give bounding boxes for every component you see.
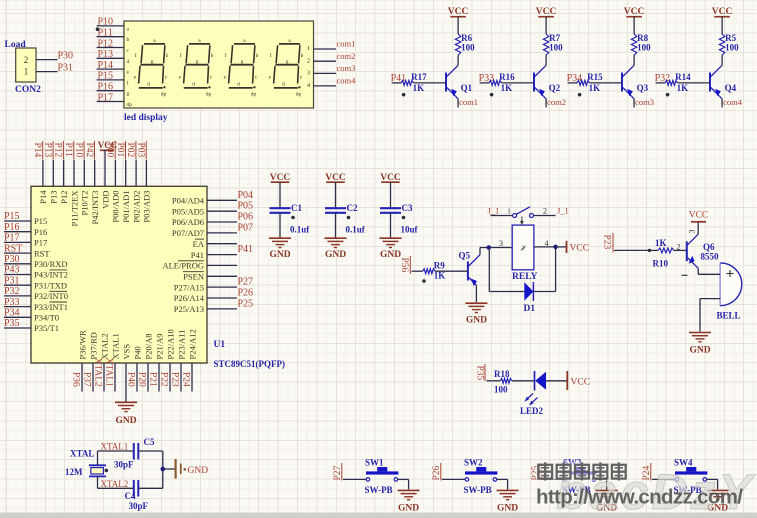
svg-text:GND: GND — [115, 416, 136, 426]
net label P24 — [181, 372, 191, 387]
svg-text:VCC: VCC — [624, 7, 645, 17]
bell LS1 — [717, 263, 742, 321]
wire mcu top pin P10/T2 — [83, 160, 85, 187]
wire P26 to SW2 — [442, 478, 465, 480]
wire mcu bottom pin XTAL2 — [103, 363, 105, 392]
svg-text:XTAL1: XTAL1 — [101, 442, 129, 452]
svg-text:0.1uf: 0.1uf — [290, 225, 310, 235]
junction marker near P32 — [666, 93, 670, 97]
wire VCC to R5 — [721, 17, 723, 34]
svg-text:P10/T2: P10/T2 — [80, 191, 90, 216]
wire Q5 collector to relay pin 3 — [480, 248, 512, 255]
svg-text:http://www.cndzz.com/: http://www.cndzz.com/ — [536, 486, 743, 509]
svg-text:P32: P32 — [4, 286, 20, 297]
led display digit 4 — [269, 38, 304, 98]
wire R5 to Q4 collector — [721, 55, 723, 65]
wire P27 to SW1 — [343, 478, 366, 480]
led display digit 1 — [134, 38, 169, 98]
wire R18 to LED2 — [512, 380, 535, 382]
svg-text:com1: com1 — [459, 97, 478, 107]
svg-text:Q1: Q1 — [461, 83, 473, 93]
wire mcu right pin P27/A15 — [207, 286, 237, 288]
resistor R5 100 — [719, 33, 739, 55]
svg-text:100: 100 — [725, 43, 739, 53]
net label P14 — [32, 141, 43, 159]
svg-text:P36: P36 — [71, 372, 81, 387]
wire mcu left pin P15 — [4, 220, 31, 222]
junction marker near P34 — [578, 93, 582, 97]
svg-text:P10: P10 — [98, 17, 114, 28]
svg-text:XTAL2: XTAL2 — [99, 333, 109, 359]
svg-text:GND: GND — [466, 316, 487, 326]
wire LED2 to VCC — [546, 380, 567, 382]
svg-text:P23/A11: P23/A11 — [176, 330, 186, 360]
svg-text:P24/A12: P24/A12 — [187, 329, 197, 359]
wire SW2 to ground — [497, 479, 508, 489]
net label P21 — [148, 372, 158, 387]
svg-text:g: g — [127, 91, 130, 97]
ground below C3 — [380, 237, 402, 239]
resistor R8 100 — [631, 33, 651, 55]
wire P14 to led display — [97, 68, 124, 70]
svg-text:3: 3 — [499, 239, 503, 248]
svg-text:P43/INT2: P43/INT2 — [34, 270, 68, 280]
wire bell to ground — [700, 299, 720, 332]
svg-text:P40: P40 — [132, 346, 142, 359]
svg-text:P35: P35 — [4, 318, 20, 329]
svg-text:d: d — [127, 59, 130, 65]
wire mcu bottom pin P40 — [136, 363, 138, 392]
wire P25 to SW3 — [541, 478, 564, 480]
wire mcu top pin P02/AD2 — [135, 160, 137, 187]
svg-text:P24: P24 — [181, 372, 191, 387]
svg-text:P17: P17 — [34, 238, 47, 248]
wire P15 to led display — [97, 79, 124, 81]
svg-text:R5: R5 — [725, 33, 736, 43]
wire mcu left pin RST — [4, 252, 31, 254]
net label P12 — [53, 141, 64, 159]
resistor R9 1K — [423, 261, 446, 281]
svg-text:P40: P40 — [126, 372, 136, 387]
svg-text:P11: P11 — [98, 28, 113, 39]
svg-text:P15: P15 — [98, 71, 114, 82]
svg-text:P43: P43 — [4, 265, 20, 276]
svg-text:g: g — [286, 59, 289, 65]
transistor Q3 — [621, 65, 649, 99]
resistor R6 100 — [455, 33, 475, 55]
svg-text:1: 1 — [24, 67, 29, 77]
svg-text:Q6: Q6 — [703, 242, 715, 252]
svg-text:dp: dp — [206, 92, 212, 98]
wire mcu top pin VDD — [104, 160, 106, 187]
svg-text:P13: P13 — [42, 143, 52, 158]
net label P35 — [475, 364, 485, 381]
wire P41 to R17 — [392, 82, 401, 84]
wire mcu left pin P30/RXD — [4, 263, 31, 265]
svg-text:P00/AD0: P00/AD0 — [111, 191, 121, 223]
svg-text:P42: P42 — [84, 143, 94, 158]
bell minus terminal — [682, 274, 688, 276]
svg-text:P16: P16 — [4, 222, 20, 233]
svg-text:f: f — [135, 52, 137, 59]
svg-text:P36/WR: P36/WR — [77, 330, 87, 360]
transistor Q2 — [533, 65, 561, 99]
svg-text:P17: P17 — [98, 92, 114, 103]
svg-text:com1: com1 — [337, 39, 356, 49]
svg-text:d: d — [237, 82, 240, 88]
svg-text:P10: P10 — [73, 143, 83, 158]
svg-text:f: f — [127, 79, 129, 86]
wire P32 to R14 — [656, 82, 665, 84]
svg-text:XTAL1: XTAL1 — [110, 333, 120, 359]
wire mcu top pin P14 — [42, 160, 44, 187]
svg-text:P05/AD5: P05/AD5 — [172, 206, 204, 216]
svg-text:com4: com4 — [723, 97, 743, 107]
wire Q6 emitter to bell — [698, 268, 720, 274]
svg-text:LED2: LED2 — [520, 406, 544, 416]
power port VCC above C3 — [380, 173, 401, 183]
svg-text:P21/A9: P21/A9 — [154, 334, 164, 360]
svg-text:P14: P14 — [38, 190, 48, 204]
svg-text:STC89C51(PQFP): STC89C51(PQFP) — [214, 359, 286, 369]
resistor R14 1K — [665, 72, 691, 93]
power port VCC above C2 — [325, 173, 346, 183]
wire mcu left pin P33/INT1 — [4, 306, 31, 308]
svg-text:P15: P15 — [4, 211, 20, 222]
junction relay pin4 node — [553, 245, 558, 250]
svg-text:P13: P13 — [49, 191, 59, 204]
svg-text:f: f — [270, 52, 272, 59]
svg-text:P22/A10: P22/A10 — [165, 329, 175, 359]
svg-text:P41: P41 — [238, 244, 254, 255]
wire mcu right pin EA — [207, 243, 237, 245]
svg-text:SW1: SW1 — [365, 458, 384, 468]
relay contact switch J_1 — [491, 207, 556, 225]
svg-text:com3: com3 — [635, 97, 654, 107]
wire VCC to C2 — [335, 182, 337, 207]
capacitor C5 30pF — [114, 437, 155, 470]
svg-text:XTAL1: XTAL1 — [104, 358, 114, 388]
wire mcu right pin P04/AD4 — [207, 199, 237, 201]
svg-text:2: 2 — [543, 207, 547, 216]
svg-text:2: 2 — [24, 55, 29, 65]
svg-text:P37: P37 — [82, 372, 92, 387]
wire mcu top pin P12 — [63, 160, 65, 187]
capacitor C1 — [270, 203, 311, 235]
svg-text:P06/AD6: P06/AD6 — [172, 217, 204, 227]
wire mcu left pin P31/TXD — [4, 284, 31, 286]
wire C2 to ground — [335, 213, 337, 238]
switch SW3 SW-PB — [563, 458, 597, 496]
bottom gray band — [0, 513, 757, 518]
wire mcu VSS to ground — [125, 392, 127, 402]
net label P56 — [399, 256, 410, 274]
svg-text:g: g — [196, 59, 199, 65]
svg-text:P42/INT3: P42/INT3 — [90, 191, 100, 225]
svg-text:C3: C3 — [402, 203, 413, 213]
svg-text:SW-PB: SW-PB — [365, 485, 393, 495]
switch SW2 SW-PB — [464, 458, 498, 496]
wire mcu right pin PSEN — [207, 275, 237, 277]
svg-text:P30: P30 — [4, 254, 20, 265]
svg-text:P02: P02 — [125, 143, 135, 158]
ground below C1 — [269, 237, 291, 239]
transistor Q4 — [709, 65, 737, 99]
wire relay pin4 to VCC node — [534, 246, 556, 248]
svg-text:dp: dp — [161, 92, 167, 98]
svg-text:g: g — [241, 59, 244, 65]
wire Q1 emitter to com1 — [457, 99, 459, 108]
junction marker on P23 wire — [648, 249, 651, 252]
svg-text:P06: P06 — [238, 212, 254, 223]
wire Q5 emitter to ground — [475, 285, 477, 302]
svg-text:P30/RXD: P30/RXD — [34, 259, 68, 269]
net label XTAL2 — [93, 358, 103, 388]
wire mcu right pin P07/AD7 — [207, 232, 237, 234]
ground below Q5 — [465, 302, 487, 304]
svg-text:100: 100 — [637, 43, 651, 53]
wire P35 to R18 — [487, 380, 501, 382]
svg-text:P17: P17 — [4, 233, 20, 244]
led display digit 2 — [179, 38, 214, 98]
svg-text:J_1: J_1 — [557, 206, 569, 216]
wire VCC to R8 — [633, 17, 635, 34]
net label P13 — [42, 141, 53, 159]
svg-text:P12: P12 — [59, 191, 69, 204]
wire R9 to Q5 base — [435, 270, 468, 272]
svg-text:1K: 1K — [434, 271, 446, 281]
wire VCC to C1 — [279, 182, 281, 207]
LED LED2 — [520, 371, 546, 416]
svg-text:P37/RD: P37/RD — [88, 332, 98, 359]
ground below mcu VSS — [115, 401, 137, 403]
svg-text:10uf: 10uf — [401, 225, 419, 235]
wire VCC to R7 — [545, 17, 547, 34]
svg-text:1K: 1K — [655, 238, 667, 248]
wire mcu right pin P26/A14 — [207, 297, 237, 299]
ground below SW4 — [707, 489, 729, 491]
svg-text:Q3: Q3 — [637, 83, 649, 93]
wire R6 to Q1 collector — [457, 55, 459, 65]
svg-text:R7: R7 — [549, 33, 560, 43]
svg-text:d: d — [192, 82, 195, 88]
net label P24 — [642, 463, 652, 481]
svg-text:P07/AD7: P07/AD7 — [172, 228, 204, 238]
wire mcu bottom pin P22/A10 — [169, 363, 171, 392]
svg-text:P21: P21 — [148, 372, 158, 387]
svg-text:2: 2 — [307, 57, 310, 64]
svg-text:P31: P31 — [58, 62, 74, 73]
relay RELY body — [512, 225, 538, 282]
svg-text:P35/T1: P35/T1 — [34, 323, 59, 333]
capacitor C4 30pF — [125, 480, 149, 511]
svg-text:GND: GND — [325, 250, 346, 260]
wire SW3 to ground — [596, 479, 607, 489]
net label P10 — [73, 141, 84, 159]
svg-text:P32/INT0: P32/INT0 — [34, 291, 68, 301]
svg-text:VCC: VCC — [570, 244, 590, 254]
wire mcu bottom pin P36/WR — [81, 363, 83, 392]
svg-text:R15: R15 — [587, 72, 603, 82]
net label P20 — [137, 372, 147, 387]
svg-text:P04: P04 — [238, 190, 254, 201]
wire R10 to Q6 base — [674, 249, 687, 251]
wire mcu right pin P05/AD5 — [207, 210, 237, 212]
wire mcu bottom pin P20/A8 — [147, 363, 149, 392]
svg-text:P16: P16 — [98, 82, 114, 93]
svg-text:P12: P12 — [98, 38, 114, 49]
wire led display pin 2 to com2 — [314, 60, 337, 62]
svg-text:P25: P25 — [238, 298, 254, 309]
wire R14 to Q4 base — [678, 82, 710, 84]
wire R8 to Q3 collector — [633, 55, 635, 65]
svg-text:P03/AD3: P03/AD3 — [142, 191, 152, 223]
wire mcu top pin P03/AD3 — [145, 160, 147, 187]
svg-text:C2: C2 — [347, 203, 358, 213]
svg-text:P31/TXD: P31/TXD — [34, 280, 67, 290]
svg-text:BELL: BELL — [717, 311, 741, 321]
wire led display pin 3 to com3 — [314, 72, 337, 74]
wire mcu top pin P00/AD0 — [114, 160, 116, 187]
svg-text:R9: R9 — [434, 261, 445, 271]
wire P24 to SW4 — [652, 478, 675, 480]
ground below SW3 — [596, 489, 618, 491]
svg-text:VSS: VSS — [121, 344, 131, 360]
junction marker near C3 — [402, 216, 406, 220]
svg-text:P33: P33 — [4, 297, 20, 308]
svg-text:ALE/PROG: ALE/PROG — [162, 261, 204, 271]
svg-text:SW2: SW2 — [464, 458, 483, 468]
wire CON2 pin2 to P30 — [36, 59, 58, 61]
wire P33 to R16 — [480, 82, 489, 84]
svg-text:1K: 1K — [501, 83, 513, 93]
svg-text:VCC: VCC — [571, 378, 591, 388]
svg-text:P07: P07 — [238, 222, 254, 233]
resistor R16 1K — [489, 72, 515, 93]
resistor R18 100 — [494, 369, 512, 395]
svg-text:P25/A13: P25/A13 — [174, 304, 204, 314]
wire mcu bottom pin VSS — [125, 363, 127, 392]
wire mcu left pin P34/T0 — [4, 316, 31, 318]
svg-text:XTAL2: XTAL2 — [101, 479, 129, 489]
wire mcu bottom pin P24/A12 — [191, 363, 193, 392]
svg-text:b: b — [127, 37, 130, 43]
svg-text:P01/AD1: P01/AD1 — [121, 191, 131, 223]
svg-text:P35: P35 — [475, 366, 485, 381]
svg-text:b: b — [166, 53, 169, 59]
svg-text:GND: GND — [269, 250, 290, 260]
svg-text:30pF: 30pF — [129, 501, 149, 511]
svg-text:com4: com4 — [337, 76, 357, 86]
wire R16 to Q2 base — [502, 82, 534, 84]
resistor R10 1K — [653, 238, 674, 269]
mcu U1 STC89C51 body — [31, 186, 285, 369]
net label P23 — [170, 372, 180, 387]
svg-text:dp: dp — [251, 92, 257, 98]
svg-text:U1: U1 — [214, 340, 226, 350]
net label P26 — [432, 463, 442, 481]
svg-text:b: b — [256, 53, 259, 59]
svg-text:P27: P27 — [238, 277, 254, 288]
svg-text:XTAL: XTAL — [70, 449, 94, 459]
wire mcu bottom pin P21/A9 — [158, 363, 160, 392]
svg-text:VDD: VDD — [100, 191, 110, 209]
svg-text:Load: Load — [5, 40, 27, 50]
svg-text:P30: P30 — [58, 51, 74, 62]
resistor R7 100 — [543, 33, 563, 55]
switch SW1 SW-PB — [365, 458, 399, 496]
net label P11 — [63, 141, 74, 159]
wire P11 to led display — [97, 36, 124, 38]
svg-text:b: b — [301, 53, 304, 59]
net label P22 — [159, 372, 169, 387]
capacitor C3 — [380, 203, 419, 235]
svg-text:R16: R16 — [499, 72, 515, 82]
svg-text:P15: P15 — [34, 216, 47, 226]
wire mcu left pin P32/INT0 — [4, 295, 31, 297]
svg-text:f: f — [180, 52, 182, 59]
svg-text:D1: D1 — [524, 304, 536, 314]
svg-text:1K: 1K — [677, 83, 689, 93]
wire VCC to C3 — [390, 182, 392, 207]
net label P01 — [115, 141, 126, 159]
svg-text:100: 100 — [494, 385, 508, 395]
svg-text:P11/T2EX: P11/T2EX — [69, 191, 79, 227]
wire mcu top pin P42/INT3 — [94, 160, 96, 187]
capacitor C2 — [325, 203, 366, 235]
svg-text:J_1: J_1 — [488, 206, 500, 216]
led display DS1 — [124, 21, 314, 123]
junction marker near P33 — [490, 93, 494, 97]
led display digit 3 — [224, 38, 259, 98]
ground below SW2 — [497, 489, 519, 491]
wire R7 to Q2 collector — [545, 55, 547, 65]
net label XTAL1 — [104, 358, 114, 388]
svg-text:R17: R17 — [411, 72, 427, 82]
wire mcu right pin P41 — [207, 254, 237, 256]
svg-text:1K: 1K — [413, 83, 425, 93]
junction marker near P11 — [96, 27, 100, 31]
svg-text:EA: EA — [193, 239, 205, 249]
wire P12 to led display — [97, 47, 124, 49]
watermark chinese characters — [536, 462, 628, 482]
svg-text:P26: P26 — [238, 288, 254, 299]
svg-text:12M: 12M — [65, 467, 83, 477]
net label P42 — [84, 141, 95, 159]
svg-text:1K: 1K — [589, 83, 601, 93]
wire P16 to led display — [97, 90, 124, 92]
net label P37 — [82, 372, 92, 387]
svg-text:PSEN: PSEN — [183, 272, 204, 282]
net label P40 — [126, 372, 136, 387]
resistor R15 1K — [577, 72, 603, 93]
svg-text:GND: GND — [188, 466, 209, 476]
wire P10 to led display — [97, 25, 124, 27]
wire P13 to led display — [97, 57, 124, 59]
wire SW4 to ground — [707, 479, 718, 489]
svg-text:P11: P11 — [63, 143, 73, 158]
wire XTAL1 net — [98, 451, 134, 465]
svg-text:Q4: Q4 — [725, 83, 737, 93]
svg-text:P27/A15: P27/A15 — [174, 282, 204, 292]
relay pin 3 — [499, 239, 503, 248]
net label P27 — [333, 463, 343, 481]
wire mcu right pin ALE/PROG — [207, 264, 237, 266]
transistor Q6 8550 — [686, 234, 719, 268]
svg-text:R10: R10 — [653, 259, 669, 269]
svg-text:CON2: CON2 — [15, 85, 41, 95]
wire Q6 collector to VCC — [697, 222, 699, 234]
